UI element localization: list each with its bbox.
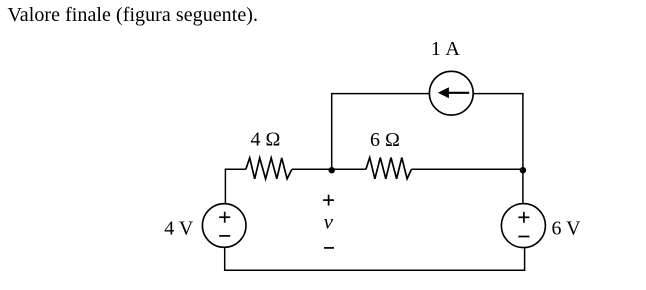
svg-text:v: v: [324, 209, 334, 233]
svg-text:4 Ω: 4 Ω: [251, 129, 281, 151]
svg-text:Valore finale (figura seguente: Valore finale (figura seguente).: [8, 4, 259, 26]
svg-text:4 V: 4 V: [164, 218, 194, 240]
svg-text:1 A: 1 A: [431, 38, 460, 60]
svg-text:6 V: 6 V: [552, 218, 582, 240]
svg-text:6 Ω: 6 Ω: [370, 129, 400, 151]
